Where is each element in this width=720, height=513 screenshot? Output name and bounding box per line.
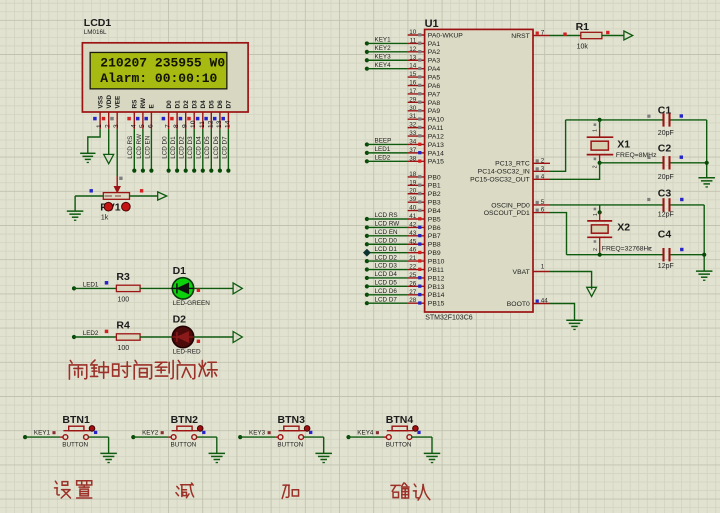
- svg-text:LED2: LED2: [375, 155, 391, 162]
- svg-text:PB8: PB8: [428, 242, 441, 249]
- svg-text:25: 25: [409, 272, 417, 279]
- svg-text:LCD D1: LCD D1: [375, 246, 398, 253]
- svg-text:LCD D6: LCD D6: [375, 288, 398, 295]
- svg-text:22: 22: [409, 264, 417, 271]
- svg-text:BEEP: BEEP: [375, 138, 392, 145]
- svg-text:17: 17: [409, 88, 417, 95]
- svg-text:PA3: PA3: [428, 58, 441, 65]
- svg-text:46: 46: [409, 247, 417, 254]
- svg-text:LED-RED: LED-RED: [173, 349, 201, 356]
- svg-text:PB2: PB2: [428, 191, 441, 198]
- svg-text:KEY3: KEY3: [249, 430, 266, 437]
- svg-text:39: 39: [409, 196, 417, 203]
- svg-text:PC14-OSC32_IN: PC14-OSC32_IN: [478, 169, 530, 176]
- svg-text:40: 40: [409, 205, 417, 212]
- svg-text:NRST: NRST: [511, 33, 530, 40]
- svg-text:E: E: [149, 104, 156, 109]
- svg-text:LCD EN: LCD EN: [375, 229, 399, 236]
- svg-text:PA8: PA8: [428, 100, 441, 107]
- svg-text:12pF: 12pF: [658, 263, 674, 270]
- svg-text:R1: R1: [576, 21, 590, 33]
- svg-text:BUTTON: BUTTON: [62, 441, 88, 448]
- svg-text:PB12: PB12: [428, 275, 445, 282]
- svg-text:C2: C2: [658, 143, 672, 155]
- svg-text:PA0-WKUP: PA0-WKUP: [428, 32, 463, 39]
- svg-text:10k: 10k: [577, 43, 589, 50]
- svg-text:PB6: PB6: [428, 225, 441, 232]
- svg-text:BTN1: BTN1: [62, 414, 90, 426]
- svg-text:PA11: PA11: [428, 125, 444, 132]
- svg-text:D0: D0: [166, 100, 173, 109]
- svg-text:STM32F103C6: STM32F103C6: [425, 315, 473, 322]
- svg-text:KEY2: KEY2: [142, 430, 159, 437]
- svg-text:KEY4: KEY4: [357, 430, 374, 437]
- svg-text:LCD D3: LCD D3: [187, 136, 194, 159]
- svg-text:2: 2: [593, 165, 599, 168]
- svg-text:44: 44: [541, 298, 549, 305]
- svg-text:LCD D0: LCD D0: [162, 136, 169, 159]
- svg-text:20: 20: [409, 188, 417, 195]
- svg-text:X1: X1: [617, 139, 630, 151]
- svg-text:12: 12: [409, 46, 417, 53]
- svg-text:LCD1: LCD1: [84, 17, 112, 29]
- svg-text:KEY1: KEY1: [34, 430, 51, 437]
- svg-text:41: 41: [409, 213, 417, 220]
- svg-text:LED2: LED2: [83, 330, 99, 337]
- svg-text:PA13: PA13: [428, 142, 444, 149]
- svg-text:5: 5: [139, 124, 146, 128]
- svg-text:29: 29: [409, 96, 417, 103]
- svg-text:6: 6: [541, 207, 545, 214]
- svg-text:LCD D7: LCD D7: [221, 136, 228, 159]
- svg-text:Alarm: 00:00:10: Alarm: 00:00:10: [100, 71, 217, 86]
- svg-text:PA14: PA14: [428, 150, 444, 157]
- svg-text:7: 7: [165, 124, 172, 128]
- svg-text:4: 4: [130, 124, 137, 128]
- svg-text:PA2: PA2: [428, 49, 441, 56]
- svg-text:D5: D5: [209, 100, 216, 109]
- svg-text:18: 18: [409, 171, 417, 178]
- svg-text:D3: D3: [192, 100, 199, 109]
- svg-text:PB1: PB1: [428, 183, 441, 190]
- svg-text:LED1: LED1: [83, 282, 99, 289]
- svg-text:VDD: VDD: [106, 95, 113, 109]
- svg-text:100: 100: [118, 345, 130, 352]
- svg-text:LCD D0: LCD D0: [375, 237, 398, 244]
- svg-text:27: 27: [409, 289, 417, 296]
- svg-text:12: 12: [207, 120, 214, 128]
- svg-text:PB5: PB5: [428, 216, 441, 223]
- svg-text:PA12: PA12: [428, 133, 444, 140]
- svg-text:PA5: PA5: [428, 75, 441, 82]
- svg-text:45: 45: [409, 238, 417, 245]
- svg-text:FREQ=32768Hz: FREQ=32768Hz: [602, 245, 653, 252]
- svg-text:100: 100: [118, 297, 130, 304]
- svg-text:PB13: PB13: [428, 284, 445, 291]
- svg-text:U1: U1: [425, 18, 439, 30]
- svg-text:LCD D2: LCD D2: [179, 136, 186, 159]
- svg-text:LCD D5: LCD D5: [375, 280, 398, 287]
- svg-text:PA6: PA6: [428, 83, 441, 90]
- svg-text:BTN3: BTN3: [278, 414, 306, 426]
- svg-text:2: 2: [541, 157, 545, 164]
- svg-text:42: 42: [409, 221, 417, 228]
- svg-text:VEE: VEE: [115, 95, 122, 109]
- svg-text:43: 43: [409, 230, 417, 237]
- svg-text:LCD D1: LCD D1: [170, 136, 177, 159]
- svg-text:1k: 1k: [101, 215, 109, 222]
- svg-text:1: 1: [593, 213, 599, 216]
- svg-text:PC15-OSC32_OUT: PC15-OSC32_OUT: [470, 177, 530, 184]
- svg-text:14: 14: [224, 120, 231, 128]
- svg-text:X2: X2: [617, 221, 630, 233]
- svg-text:34: 34: [409, 138, 417, 145]
- svg-text:31: 31: [409, 113, 417, 120]
- svg-text:20pF: 20pF: [658, 130, 674, 137]
- svg-text:LCD D4: LCD D4: [375, 271, 398, 278]
- svg-text:3: 3: [541, 165, 545, 172]
- svg-text:PA10: PA10: [428, 117, 444, 124]
- svg-text:LCD D2: LCD D2: [375, 254, 398, 261]
- svg-text:10: 10: [190, 120, 197, 128]
- svg-text:4: 4: [541, 173, 545, 180]
- svg-text:5: 5: [541, 199, 545, 206]
- svg-text:210207 235955 W0: 210207 235955 W0: [100, 56, 225, 71]
- svg-text:LCD RS: LCD RS: [127, 136, 134, 159]
- svg-text:BTN2: BTN2: [171, 414, 199, 426]
- svg-text:LCD D7: LCD D7: [375, 296, 398, 303]
- svg-text:D2: D2: [173, 313, 187, 325]
- svg-text:11: 11: [199, 121, 206, 128]
- svg-text:14: 14: [409, 63, 417, 70]
- svg-text:R4: R4: [116, 320, 130, 332]
- svg-text:PA4: PA4: [428, 66, 441, 73]
- svg-text:LCD RS: LCD RS: [375, 212, 398, 219]
- svg-text:OSCIN_PD0: OSCIN_PD0: [491, 202, 530, 209]
- svg-text:PB14: PB14: [428, 292, 445, 299]
- svg-text:LM016L: LM016L: [84, 29, 107, 36]
- svg-text:28: 28: [409, 297, 417, 304]
- svg-text:PA15: PA15: [428, 159, 444, 166]
- svg-text:11: 11: [410, 37, 417, 44]
- svg-text:BUTTON: BUTTON: [386, 441, 412, 448]
- svg-text:LCD D6: LCD D6: [213, 136, 220, 159]
- svg-text:PB3: PB3: [428, 200, 441, 207]
- svg-text:PB11: PB11: [428, 267, 444, 274]
- svg-text:RS: RS: [132, 99, 139, 109]
- svg-text:D1: D1: [174, 100, 181, 109]
- svg-text:KEY3: KEY3: [375, 53, 392, 60]
- svg-text:OSCOUT_PD1: OSCOUT_PD1: [484, 210, 530, 217]
- svg-text:13: 13: [409, 54, 417, 61]
- svg-text:10: 10: [409, 29, 417, 36]
- svg-text:PC13_RTC: PC13_RTC: [495, 161, 530, 168]
- svg-text:15: 15: [409, 71, 417, 78]
- svg-text:2: 2: [593, 248, 599, 251]
- svg-text:PA1: PA1: [428, 41, 441, 48]
- svg-text:1: 1: [96, 124, 103, 128]
- svg-text:LCD D4: LCD D4: [196, 136, 203, 159]
- svg-text:PB15: PB15: [428, 301, 445, 308]
- svg-text:BUTTON: BUTTON: [277, 441, 303, 448]
- svg-text:1: 1: [541, 264, 545, 271]
- svg-text:C3: C3: [658, 187, 672, 199]
- svg-text:PB9: PB9: [428, 250, 441, 257]
- svg-text:R3: R3: [116, 271, 130, 283]
- svg-text:LED-GREEN: LED-GREEN: [173, 300, 211, 307]
- svg-text:37: 37: [409, 147, 417, 154]
- svg-text:D7: D7: [226, 100, 233, 109]
- svg-text:KEY2: KEY2: [375, 45, 392, 52]
- svg-text:PB0: PB0: [428, 174, 441, 181]
- svg-text:16: 16: [409, 80, 417, 87]
- svg-text:9: 9: [182, 124, 189, 128]
- svg-text:KEY4: KEY4: [375, 62, 392, 69]
- svg-text:D2: D2: [183, 100, 190, 109]
- svg-text:PA7: PA7: [428, 91, 441, 98]
- svg-text:26: 26: [409, 280, 417, 287]
- svg-text:RW: RW: [140, 97, 147, 108]
- svg-text:33: 33: [409, 130, 417, 137]
- svg-text:PB7: PB7: [428, 233, 441, 240]
- svg-text:D6: D6: [217, 100, 224, 109]
- svg-text:D1: D1: [173, 265, 187, 277]
- svg-text:8: 8: [173, 124, 180, 128]
- svg-text:PA9: PA9: [428, 108, 441, 115]
- svg-text:LED1: LED1: [375, 146, 391, 153]
- svg-text:BTN4: BTN4: [386, 414, 414, 426]
- svg-text:D4: D4: [200, 100, 207, 109]
- svg-text:LCD D5: LCD D5: [204, 136, 211, 159]
- svg-text:PB10: PB10: [428, 259, 445, 266]
- svg-text:LCD EN: LCD EN: [144, 135, 151, 159]
- svg-text:21: 21: [409, 255, 417, 262]
- svg-text:6: 6: [147, 124, 154, 128]
- svg-text:1: 1: [593, 129, 599, 132]
- svg-text:BUTTON: BUTTON: [171, 441, 197, 448]
- svg-text:VBAT: VBAT: [513, 269, 530, 276]
- svg-text:19: 19: [409, 179, 417, 186]
- svg-text:30: 30: [409, 105, 417, 112]
- svg-text:VSS: VSS: [97, 95, 104, 109]
- svg-text:LCD RW: LCD RW: [375, 221, 400, 228]
- svg-text:32: 32: [409, 122, 417, 129]
- svg-text:LCD D3: LCD D3: [375, 263, 398, 270]
- svg-text:3: 3: [113, 124, 120, 128]
- svg-text:C4: C4: [658, 229, 672, 241]
- svg-text:2: 2: [105, 124, 112, 128]
- svg-text:KEY1: KEY1: [375, 37, 392, 44]
- svg-text:7: 7: [541, 30, 545, 37]
- svg-text:BOOT0: BOOT0: [507, 301, 530, 308]
- svg-text:13: 13: [216, 120, 223, 128]
- svg-text:20pF: 20pF: [658, 174, 674, 181]
- svg-text:LCD RW: LCD RW: [136, 134, 143, 159]
- svg-text:38: 38: [409, 155, 417, 162]
- svg-text:FREQ=8MHz: FREQ=8MHz: [616, 152, 657, 159]
- svg-text:12pF: 12pF: [658, 212, 674, 219]
- svg-text:PB4: PB4: [428, 208, 441, 215]
